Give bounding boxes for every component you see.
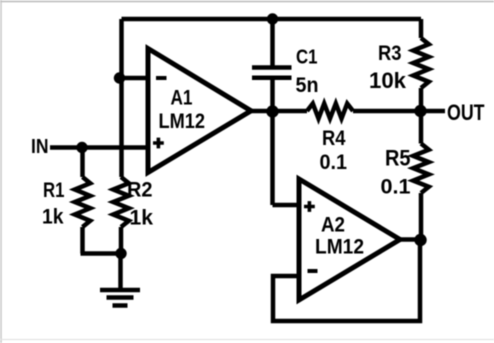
svg-text:0.1: 0.1 <box>320 151 348 174</box>
resistor R2 <box>113 177 129 227</box>
op-amp A1 <box>148 49 251 173</box>
svg-text:IN: IN <box>31 136 49 158</box>
wire R2 bottom to ground node <box>119 227 124 254</box>
resistor R4 <box>307 104 353 119</box>
scan border bottom <box>0 339 494 341</box>
svg-text:R2: R2 <box>127 179 153 202</box>
capacitor C1 top lead <box>270 19 275 66</box>
node A2 output junction <box>414 234 426 246</box>
A2 plus sign <box>304 201 315 212</box>
node feedback/inverting input junction <box>114 72 125 83</box>
A1 minus sign <box>156 76 167 80</box>
node OUT junction <box>414 105 426 117</box>
resistor R3 <box>413 38 429 88</box>
svg-text:A2: A2 <box>321 214 345 237</box>
svg-text:1k: 1k <box>42 206 64 229</box>
wire IN to non-inverting input A1 <box>50 145 148 150</box>
svg-text:R4: R4 <box>322 127 346 150</box>
svg-text:OUT: OUT <box>447 100 485 125</box>
wire A1 output to A2 non-inverting input <box>273 112 300 206</box>
ground <box>100 290 140 306</box>
node IN junction <box>76 142 87 153</box>
op-amp A2 <box>299 179 400 300</box>
svg-text:A1: A1 <box>171 87 193 110</box>
capacitor C1 bottom lead <box>270 80 275 112</box>
wire A2 output stub <box>400 237 421 242</box>
wire R1 top <box>80 148 85 178</box>
resistor R1 <box>75 177 90 227</box>
A1 plus sign <box>153 138 164 149</box>
svg-text:5n: 5n <box>296 74 319 97</box>
node top rail C1 junction <box>267 13 278 24</box>
wire OUT stub <box>421 109 446 114</box>
svg-text:1k: 1k <box>130 207 154 230</box>
capacitor C1 <box>252 68 292 78</box>
svg-text:R5: R5 <box>385 146 411 171</box>
wire R5 leads <box>419 111 424 240</box>
node A1 output junction <box>266 105 278 117</box>
wire right rail top (R3 leads) <box>419 19 424 111</box>
wire left vertical (top rail to R2) <box>119 19 124 177</box>
wire top feedback rail <box>122 17 422 22</box>
svg-text:0.1: 0.1 <box>381 176 411 199</box>
scan border top <box>0 1 494 3</box>
scan border left <box>0 0 2 343</box>
svg-text:LM12: LM12 <box>159 110 206 133</box>
wire ground stem <box>118 254 123 289</box>
svg-text:R1: R1 <box>43 179 65 202</box>
svg-text:R3: R3 <box>378 42 402 65</box>
wire A2 feedback (minus input to output) <box>273 240 420 321</box>
svg-text:LM12: LM12 <box>315 236 364 259</box>
wire A1 output <box>251 109 421 114</box>
svg-text:C1: C1 <box>296 47 318 69</box>
wire inverting input A1 <box>120 76 149 81</box>
resistor R5 <box>413 144 429 194</box>
A2 minus sign <box>308 269 318 273</box>
svg-text:10k: 10k <box>369 68 407 93</box>
node ground junction <box>115 248 126 259</box>
wire R1 bottom to ground node <box>81 227 122 254</box>
